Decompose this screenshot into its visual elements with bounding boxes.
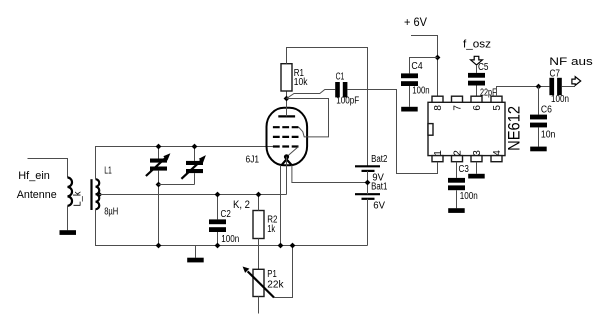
wire VC1 bottom lead down to ground rail [158,171,160,246]
ground C6 [530,147,547,152]
svg-text:C7: C7 [550,68,561,79]
wire VC2 top lead [194,147,196,161]
wire heater left to ground rail [280,165,282,245]
svg-text:8: 8 [433,105,444,111]
variable capacitor VC1 arrow [146,157,167,176]
wire pin5 up and right to C7 [497,87,550,97]
capacitor C3 100n [448,178,465,183]
wire L1 bottom lead and ground bottom rail [96,209,368,245]
inductor L_k coupling coil [68,178,73,206]
pin 6 [471,96,482,102]
node C6 C7 junction [536,84,542,90]
node R2 top junction [256,192,262,198]
svg-text:L_k: L_k [73,191,84,207]
node VC1 top junction [156,144,162,150]
svg-text:Bat2: Bat2 [371,154,388,165]
capacitor C2 plates [209,219,226,224]
svg-text:1k: 1k [267,224,276,235]
output arrow NF aus [572,77,581,86]
battery Bat1 6V [355,193,380,195]
wire C3 to ground [456,190,458,208]
svg-text:2: 2 [453,150,464,156]
battery Bat2 9V [355,165,380,167]
svg-text:K, 2: K, 2 [233,199,250,211]
svg-text:f_osz: f_osz [463,39,491,51]
wire P1 bottom stub [258,297,260,314]
tube grid g2 dashes [273,126,299,128]
pin 3 [471,156,482,162]
svg-text:8µH: 8µH [104,207,118,218]
wire battery middle segment [367,171,369,194]
wire L_k bottom to ground [67,206,69,230]
node anode junction [284,96,290,102]
wire C4 bottom to ground [409,86,411,107]
wire junction to C6 [538,87,540,115]
resistor R1 10k [281,64,292,91]
node VC1 rail junction [156,243,162,249]
svg-text:C4: C4 [411,61,423,72]
wire C6 to ground [538,127,540,146]
svg-text:L1: L1 [104,166,112,177]
pin 7 [452,96,463,102]
capacitor C5 22pF [468,73,485,78]
ground bottom rail [187,258,204,263]
node wiper rail junction [290,243,296,249]
node battery junction [365,180,371,186]
pin 8 [432,96,443,102]
svg-text:10n: 10n [541,130,556,141]
potentiometer P1 22k [253,269,264,296]
wire anode to C1 [287,90,336,99]
node VC1 bottom junction [156,182,162,188]
wire +6V stub down to pin 8 [411,36,438,97]
ground C3 [448,208,465,213]
inductor L1 8uH [96,179,100,209]
capacitor C4 100n [401,73,418,78]
wire Hf_ein input stub to L_k top [28,159,68,178]
IC notch marker [428,124,433,136]
node C2 bottom junction [215,243,221,249]
svg-text:100n: 100n [221,234,239,245]
wire heater right to battery junction [292,165,368,182]
svg-text:C5: C5 [478,62,489,73]
svg-text:100pF: 100pF [336,95,359,106]
wire P1 wiper to ground rail [274,246,293,298]
capacitor C6 10n [530,115,547,120]
node VC2 top junction [192,144,198,150]
tube 6J1 envelope [267,108,308,165]
wire VC2 bottom lead [194,173,196,184]
wire cathode K2 rail [99,194,286,196]
pin 1 [432,156,443,162]
svg-text:22k: 22k [267,280,284,291]
wire anode lead R1 to plate [286,91,288,116]
tube grid g3 dashes [273,136,299,138]
wire L1 top lead and g1 top rail [96,147,273,180]
IC U1 NE612 body [428,102,505,155]
pin 2 [452,156,463,162]
svg-text:5: 5 [492,105,503,111]
svg-text:10k: 10k [294,77,309,88]
node C2 top junction [215,192,221,198]
svg-text:Bat1: Bat1 [371,182,388,193]
wire VC1-VC2 bottom join [159,184,195,186]
svg-text:Hf_ein: Hf_ein [18,170,50,182]
wire pin2 to C3 [456,162,458,178]
wire f_osz to C5 [476,65,478,73]
ground pin3 [468,174,485,179]
svg-text:100n: 100n [460,191,478,202]
tube grid g1 dashes [273,145,299,147]
tube cathode dot [284,154,289,159]
svg-text:100n: 100n [551,94,569,105]
svg-text:1: 1 [433,150,444,156]
wire C7 to output [562,86,575,88]
svg-text:Antenne: Antenne [17,189,57,201]
wire pin1 to C1 [347,90,437,174]
wire g2 loop to anode [287,99,329,137]
variable capacitor VC1 plates [150,159,167,163]
svg-text:C6: C6 [541,104,552,115]
resistor R2 1k [253,211,264,239]
wire C4 branch [410,58,438,74]
wire cathode lead down to K2 rail [286,157,288,195]
svg-text:C2: C2 [221,209,232,220]
tube anode plate bar [278,115,295,117]
tube heater filament [281,159,292,165]
ground antenna [60,230,77,235]
svg-text:NF aus: NF aus [549,56,593,68]
svg-text:+ 6V: + 6V [404,15,427,29]
svg-text:6J1: 6J1 [246,155,260,166]
svg-text:6: 6 [472,105,483,111]
svg-text:4: 4 [492,150,503,156]
wire R1 top loop to battery top [287,48,368,167]
svg-text:100n: 100n [412,86,429,97]
wire pin3 to ground [476,162,478,174]
svg-text:C3: C3 [459,164,470,175]
variable capacitor VC2 arrow [181,160,202,179]
node L1 tap junction [96,192,102,198]
node +6V junction [435,55,441,61]
capacitor C1 100pF [335,82,340,97]
capacitor C7 100n [549,78,554,95]
svg-text:P1: P1 [267,269,277,280]
variable capacitor VC2 plates [186,161,203,165]
wire battery bottom to ground rail [367,199,369,246]
wire R2 to P1 (crosses ground rail) [258,239,260,270]
svg-text:6V: 6V [373,200,385,211]
node heater ground junction [278,243,284,249]
wire ground stub on bottom rail [195,246,197,258]
pin 5 [491,96,502,102]
capacitor C2 top lead [217,195,219,220]
wire VC1 top lead [158,147,160,159]
svg-text:3: 3 [472,150,483,156]
wire C5 to pin 6 [476,86,478,97]
svg-text:7: 7 [453,105,464,111]
wire C2 bottom lead [217,232,219,246]
tube g3 to cathode tie [288,147,299,156]
wire R2 top lead [258,195,260,211]
potentiometer P1 wiper arrow [248,271,274,297]
transformer core [90,179,92,210]
pin 4 [491,156,502,162]
svg-text:NE612: NE612 [506,106,524,151]
ground C4 [401,107,418,112]
input arrow f_osz [471,56,483,65]
svg-text:C1: C1 [336,72,345,83]
